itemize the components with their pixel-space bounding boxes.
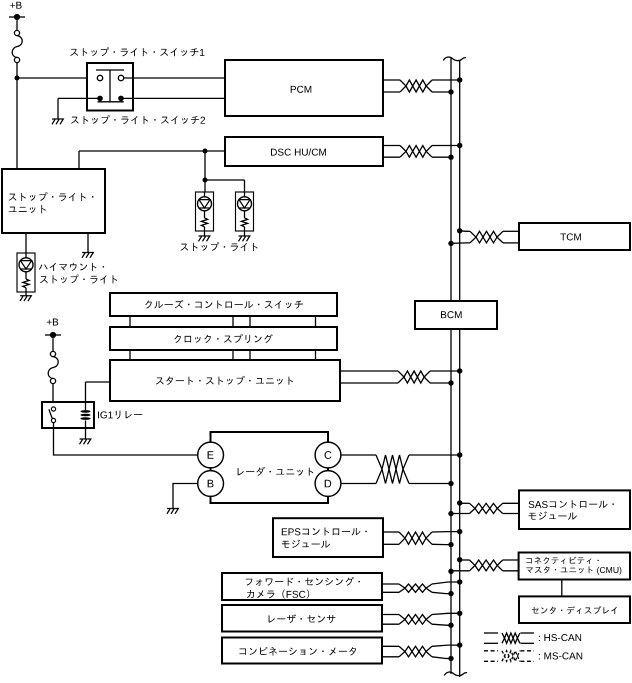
wire — [432, 657, 451, 659]
wire — [96, 69, 124, 71]
TCM box — [519, 223, 630, 250]
HS-CAN bus line 2 — [459, 329, 461, 677]
label BCM — [441, 311, 462, 318]
SAS control module box — [519, 490, 630, 529]
relay lever — [49, 409, 53, 419]
label EPS line1 — [282, 527, 367, 535]
node — [457, 368, 462, 373]
wire — [561, 580, 563, 597]
twisted pair — [399, 615, 432, 625]
label CMU line2 — [526, 566, 621, 575]
wire — [503, 230, 519, 232]
twisted pair — [398, 371, 430, 383]
fuse F1 — [14, 30, 19, 35]
BCM box — [415, 301, 497, 329]
wire — [54, 423, 198, 455]
wire — [503, 502, 519, 504]
wire — [432, 531, 460, 533]
stop light switch box — [87, 63, 133, 111]
wire — [460, 502, 470, 504]
twisted pair — [399, 646, 432, 657]
node — [457, 529, 462, 534]
wire — [432, 613, 460, 614]
wire — [383, 145, 400, 147]
center display box — [519, 596, 630, 623]
label CMU line1 — [526, 557, 598, 564]
wire — [16, 63, 18, 169]
label HS-CAN — [539, 634, 581, 641]
ground — [82, 253, 85, 258]
twisted pair — [376, 455, 409, 484]
label SAS line2 — [529, 511, 577, 519]
label stop light — [180, 242, 257, 251]
label FSC line1 — [246, 577, 360, 586]
label PCM — [291, 86, 312, 93]
label radar unit — [238, 467, 314, 476]
node — [457, 452, 462, 457]
label C — [325, 451, 332, 459]
wire — [85, 382, 87, 410]
bus twist mark top — [443, 57, 466, 61]
wire — [315, 350, 317, 360]
label start stop unit — [156, 376, 293, 385]
EPS control module box — [273, 518, 383, 557]
label laser sensor — [269, 614, 336, 623]
wire — [52, 338, 54, 351]
label high mount line2 — [40, 274, 117, 283]
wire — [57, 98, 59, 119]
ground — [79, 439, 82, 444]
wire — [432, 145, 460, 147]
laser sensor box — [222, 605, 382, 632]
wire — [432, 91, 451, 93]
ground — [167, 509, 170, 514]
label combination meter — [239, 647, 356, 656]
contact — [97, 75, 102, 80]
node — [448, 155, 453, 160]
wire — [86, 381, 111, 383]
wire — [340, 382, 398, 384]
wire — [58, 97, 98, 99]
wire — [430, 370, 460, 372]
wire — [52, 384, 54, 402]
label clock spring — [174, 334, 272, 343]
wire — [383, 543, 399, 545]
battery +B label 2 — [47, 319, 58, 326]
label center display — [532, 606, 617, 614]
terminal +B 1 — [9, 16, 25, 18]
wire — [382, 614, 399, 616]
combination meter box — [222, 638, 382, 664]
wire — [503, 513, 519, 515]
wire — [79, 150, 225, 152]
IG1 relay box — [42, 402, 94, 428]
high mount stop lamp — [17, 253, 35, 292]
ground — [52, 119, 55, 124]
node — [457, 143, 462, 148]
label stop light switch 2 — [71, 115, 205, 124]
stop lamp left — [196, 192, 214, 231]
ground — [20, 296, 23, 301]
pin D — [315, 471, 341, 497]
wire — [460, 559, 470, 561]
wire — [17, 77, 98, 79]
HS-CAN bus line 1 — [450, 58, 452, 302]
label stop light unit line2 — [9, 205, 46, 213]
pin B — [198, 471, 224, 497]
wire — [503, 242, 519, 244]
node — [457, 500, 462, 505]
wire — [432, 543, 451, 545]
node — [448, 542, 453, 547]
node — [448, 656, 453, 661]
wire — [205, 179, 245, 181]
wire — [173, 484, 197, 509]
wire — [382, 645, 399, 647]
wire — [232, 316, 234, 327]
twisted pair — [470, 503, 503, 513]
node — [457, 611, 462, 616]
wire — [432, 156, 451, 158]
wire — [244, 231, 246, 236]
wire — [383, 91, 400, 93]
node — [448, 89, 453, 94]
node — [448, 569, 453, 574]
label stop light unit line1 — [9, 192, 94, 201]
wire — [25, 292, 27, 296]
CMU box — [519, 553, 630, 580]
wire — [123, 97, 225, 99]
wire — [503, 559, 519, 561]
wire — [249, 316, 251, 327]
wire — [124, 77, 225, 79]
wire — [244, 180, 246, 192]
relay contact — [51, 418, 55, 422]
bus twist mark bottom — [444, 672, 467, 676]
node — [457, 557, 462, 562]
HS-CAN bus line 2 — [459, 60, 461, 301]
twisted pair — [470, 231, 503, 243]
wire — [383, 156, 400, 158]
wire — [340, 370, 398, 372]
node — [457, 579, 462, 584]
fuse F2 — [50, 351, 55, 356]
cruise control switch box — [110, 293, 337, 316]
legend HS-CAN sample — [484, 632, 498, 634]
contact — [97, 96, 103, 102]
wire — [503, 570, 519, 572]
ground — [239, 236, 242, 241]
wire — [341, 454, 376, 456]
twisted pair — [399, 584, 432, 592]
wire — [25, 233, 27, 253]
pin E — [198, 442, 224, 468]
label DSC HU/CM — [271, 148, 326, 155]
wire — [16, 20, 18, 30]
wire — [409, 454, 460, 456]
node — [448, 623, 453, 628]
wire — [409, 483, 451, 485]
wire — [87, 233, 89, 253]
label cruise control switch — [145, 300, 303, 309]
wire — [129, 350, 131, 360]
start stop unit box — [110, 360, 340, 401]
legend MS-CAN sample — [484, 650, 498, 652]
node — [457, 77, 462, 82]
wire — [85, 428, 87, 439]
node — [457, 642, 462, 647]
label stop light switch 1 — [70, 47, 204, 56]
wire — [78, 151, 80, 169]
node — [448, 481, 453, 486]
node — [448, 380, 453, 385]
label FSC line2 — [247, 590, 309, 599]
forward sensing camera box — [222, 573, 382, 600]
node junction — [15, 76, 20, 81]
twisted pair — [400, 146, 432, 158]
wire — [432, 592, 451, 593]
contact — [118, 96, 124, 102]
stop light unit box — [2, 169, 105, 233]
wire — [341, 483, 376, 485]
wire — [382, 591, 399, 593]
wire — [432, 645, 460, 646]
wire — [315, 316, 317, 327]
label IG1 relay — [98, 411, 142, 419]
twisted pair — [470, 560, 503, 571]
label B — [208, 480, 214, 488]
battery +B label 1 — [10, 2, 21, 9]
label EPS line2 — [282, 540, 330, 548]
node — [203, 149, 208, 154]
PCM box — [225, 60, 383, 116]
wire — [451, 242, 470, 245]
wire — [430, 382, 451, 384]
wire — [129, 316, 131, 327]
label E — [208, 451, 214, 459]
wire — [382, 583, 399, 585]
ground — [199, 236, 202, 241]
wire — [451, 513, 470, 515]
wire — [232, 350, 234, 360]
wire — [460, 230, 470, 233]
stop lamp right — [236, 192, 254, 231]
wire — [382, 623, 399, 625]
twisted pair — [400, 80, 432, 92]
wire — [432, 624, 451, 625]
node — [457, 228, 462, 233]
node — [203, 178, 208, 183]
twisted pair — [399, 532, 432, 544]
wire — [383, 79, 400, 81]
DSC HU/CM box — [225, 137, 383, 166]
wire — [249, 350, 251, 360]
pin C — [315, 442, 341, 468]
node — [448, 591, 453, 596]
label SAS line1 — [529, 500, 614, 508]
label MS-CAN — [539, 652, 582, 659]
label high mount line1 — [39, 263, 104, 271]
node — [448, 241, 453, 246]
wire — [204, 180, 206, 192]
contact — [118, 75, 123, 80]
relay coil — [80, 410, 90, 413]
HS-CAN bus line 1 — [450, 329, 452, 674]
radar unit box — [211, 432, 329, 503]
wire — [85, 421, 87, 429]
label D — [325, 480, 331, 488]
clock spring box — [110, 327, 337, 350]
wire — [204, 231, 206, 236]
wire — [382, 656, 399, 658]
wire — [451, 570, 470, 572]
node — [448, 511, 453, 516]
terminal +B 2 — [45, 334, 61, 336]
wire — [432, 79, 460, 81]
wire — [204, 151, 206, 180]
label TCM — [560, 233, 581, 240]
relay contact — [51, 407, 55, 411]
wire — [383, 531, 399, 533]
wire — [432, 582, 460, 584]
